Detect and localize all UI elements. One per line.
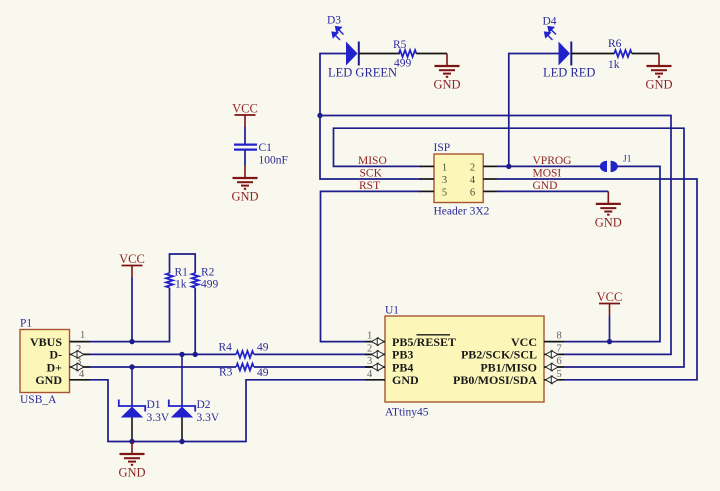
wire R6 to ground [632, 53, 659, 55]
svg-text:VPROG: VPROG [533, 155, 572, 167]
wire VBUS row [90, 288, 170, 342]
wire D4 cathode to R6 [571, 53, 614, 55]
capacitor C1 [234, 145, 257, 150]
resistor R3 [236, 363, 254, 372]
svg-text:MOSI: MOSI [533, 168, 562, 180]
svg-text:49: 49 [257, 367, 269, 379]
svg-text:100nF: 100nF [259, 155, 288, 167]
node VPROG junction [506, 164, 511, 169]
power VCC (U1) [599, 304, 620, 316]
svg-text:J1: J1 [623, 155, 632, 165]
svg-text:LED GREEN: LED GREEN [328, 66, 397, 80]
wire R2 bottom to D- [194, 288, 196, 355]
svg-text:GND: GND [118, 466, 145, 480]
svg-text:D3: D3 [327, 15, 341, 27]
svg-text:6: 6 [470, 188, 475, 199]
svg-text:4: 4 [470, 175, 476, 186]
svg-text:C1: C1 [259, 142, 273, 154]
resistor R5 [399, 50, 417, 57]
wire GND return [90, 380, 365, 442]
svg-text:VCC: VCC [597, 290, 623, 304]
wire D4 anode down to VPROG row [509, 54, 559, 167]
wire J1 to VCC pin8 column [564, 166, 660, 341]
svg-text:1: 1 [367, 331, 372, 342]
node D-/D2 junction [179, 352, 184, 357]
resistor R4 [236, 350, 254, 359]
ground (ISP) [596, 191, 621, 214]
svg-text:SCK: SCK [360, 168, 383, 180]
svg-text:ATtiny45: ATtiny45 [385, 407, 429, 419]
wire VCC to VBUS [131, 278, 133, 342]
svg-text:VCC: VCC [232, 102, 258, 116]
wire D3 cathode to R5 [359, 53, 400, 55]
wire VCC to C1 [244, 127, 246, 144]
svg-text:3.3V: 3.3V [197, 412, 220, 424]
node R2/D- junction [193, 352, 198, 357]
svg-text:R6: R6 [608, 38, 622, 50]
svg-text:2: 2 [367, 343, 372, 354]
svg-text:499: 499 [394, 58, 412, 70]
svg-text:U1: U1 [385, 305, 399, 317]
svg-text:GND: GND [645, 78, 672, 92]
wire MISO bus to PB1 [334, 128, 685, 367]
wire MOSI to PB0 [497, 179, 697, 380]
svg-text:1k: 1k [608, 59, 620, 71]
svg-text:3.3V: 3.3V [147, 412, 170, 424]
resistor R1 [166, 273, 173, 288]
node VBUS junction [129, 339, 134, 344]
ground (USB) [120, 442, 145, 465]
svg-text:R1: R1 [175, 267, 189, 279]
svg-text:R2: R2 [201, 267, 215, 279]
node VCC junction [607, 339, 612, 344]
svg-text:PB0/MOSI/SDA: PB0/MOSI/SDA [453, 373, 537, 387]
zener diode D1 [119, 367, 145, 442]
svg-text:1k: 1k [175, 279, 187, 291]
svg-text:49: 49 [257, 342, 269, 354]
svg-text:D4: D4 [543, 16, 557, 28]
pin arrows P1 [71, 351, 84, 359]
ground (C1) [233, 166, 258, 189]
svg-text:3: 3 [367, 356, 372, 367]
svg-text:R5: R5 [393, 39, 407, 51]
svg-text:P1: P1 [20, 318, 32, 330]
wire D- row [90, 353, 399, 355]
resistor R2 [192, 273, 199, 288]
zener diode D2 [169, 354, 195, 441]
connector P1 USB_A [20, 330, 90, 393]
node D1/GND junction [129, 439, 134, 444]
node D+/D1 junction [129, 364, 134, 369]
wire SCK bus to PB2 [320, 116, 671, 355]
ground (R5) [435, 54, 460, 77]
svg-text:GND: GND [595, 215, 622, 229]
svg-text:R4: R4 [219, 342, 233, 354]
svg-text:GND: GND [392, 373, 419, 387]
svg-text:2: 2 [470, 163, 475, 174]
svg-text:7: 7 [557, 343, 562, 354]
svg-text:499: 499 [201, 279, 219, 291]
svg-text:R3: R3 [219, 367, 233, 379]
svg-text:3: 3 [442, 175, 447, 186]
wire C1 to ground [244, 151, 246, 166]
wire D+ row [90, 366, 399, 368]
LED D3 [332, 27, 359, 66]
ground (R6) [647, 54, 672, 77]
svg-text:GND: GND [35, 373, 62, 387]
node SCK junction [317, 113, 322, 118]
svg-text:LED RED: LED RED [543, 66, 595, 80]
wire VCC to pin8 net [609, 316, 611, 342]
node D2/GND junction [179, 439, 184, 444]
svg-text:MISO: MISO [358, 155, 387, 167]
svg-text:VCC: VCC [119, 252, 145, 266]
svg-text:D1: D1 [147, 399, 161, 411]
svg-text:4: 4 [367, 369, 373, 380]
LED D4 [545, 27, 572, 66]
svg-text:5: 5 [557, 369, 562, 380]
IC U1 ATtiny45 [365, 316, 564, 402]
wire ISP GND [497, 190, 608, 192]
svg-text:4: 4 [79, 369, 85, 380]
svg-text:1: 1 [442, 163, 447, 174]
power VCC (C1) [235, 115, 256, 127]
jumper J1 [600, 161, 618, 172]
svg-text:1: 1 [80, 330, 85, 341]
wire R5 to ground [416, 53, 447, 55]
svg-text:RST: RST [359, 180, 380, 192]
wire RST to PB5/RESET [321, 191, 422, 341]
svg-text:GND: GND [231, 190, 258, 204]
power VCC (left) [122, 266, 143, 278]
wire VPROG to J1 [497, 165, 601, 167]
resistor R6 [614, 50, 632, 57]
svg-text:Header 3X2: Header 3X2 [434, 206, 490, 218]
svg-text:GND: GND [533, 180, 558, 192]
svg-text:USB_A: USB_A [20, 394, 57, 406]
svg-text:D2: D2 [197, 399, 211, 411]
svg-text:8: 8 [557, 331, 562, 342]
pin arrows U1 [372, 338, 385, 346]
svg-text:6: 6 [557, 356, 562, 367]
svg-text:GND: GND [433, 78, 460, 92]
wire R1 top to R2 top [170, 254, 196, 273]
svg-text:ISP: ISP [434, 142, 451, 154]
svg-text:5: 5 [442, 188, 447, 199]
connector ISP Header 3X2 [420, 154, 497, 203]
wire D3 anode to SCK column [320, 54, 421, 180]
